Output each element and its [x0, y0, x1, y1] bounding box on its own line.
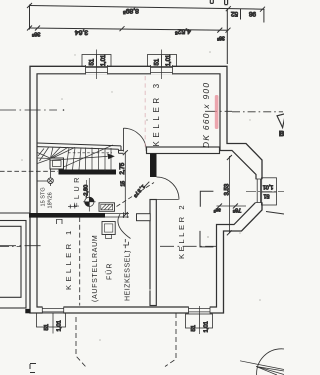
svg-text:98: 98 — [249, 10, 257, 17]
stair under-stair wall with newel — [59, 170, 117, 175]
door FLUR to KELLER 2 — [143, 182, 149, 189]
FLUR bottom wall thick — [29, 213, 105, 218]
door FLUR to KELLER 3 — [123, 128, 125, 152]
stair top wall — [37, 143, 121, 146]
dimension 3,53 vertical KELLER2 — [228, 156, 230, 233]
section marker triangle right edge — [277, 114, 286, 128]
KELLER2 left wall upper solid — [150, 154, 157, 178]
svg-text:188/26: 188/26 — [46, 192, 54, 208]
terrain line right of bay — [266, 212, 284, 215]
boiler in AUFSTELLRAUM — [102, 222, 115, 235]
svg-text:1,01: 1,01 — [166, 54, 172, 66]
svg-text:51: 51 — [154, 58, 160, 65]
svg-text:1,01: 1,01 — [203, 321, 209, 332]
exterior wall inner outline — [37, 74, 256, 307]
stairwell eye rectangle — [50, 158, 64, 169]
window W2 dimension box 51/1,01 — [148, 55, 177, 67]
window W1 dimension box 51/1,01 — [82, 55, 111, 67]
exterior wall outer outline — [30, 66, 262, 313]
window W3 bottom-left opening — [42, 306, 63, 314]
window W2 top wall opening — [151, 65, 173, 75]
diagonal dashed 1,37 — [117, 183, 155, 207]
extension line right to building corner — [226, 9, 228, 64]
window W3 dimension box — [37, 313, 66, 327]
KELLER2 left wall lower — [150, 200, 156, 306]
stair winders fan — [37, 147, 75, 164]
svg-text:2,75: 2,75 — [120, 162, 126, 174]
svg-text:FÜR: FÜR — [106, 263, 114, 280]
svg-text:15 STG: 15 STG — [41, 187, 47, 206]
svg-text:B: B — [279, 129, 284, 138]
bracket marks in KELLER 2 — [200, 191, 213, 207]
svg-text:FLUR: FLUR — [72, 174, 81, 207]
tree circle bottom right — [257, 349, 307, 375]
dimension 76(5) bay bottom — [217, 205, 247, 207]
door FLUR to AUFSTELLRAUM — [105, 213, 129, 215]
svg-text:KELLER 1: KELLER 1 — [64, 227, 73, 290]
svg-text:(AUFSTELLRAUM: (AUFSTELLRAUM — [92, 235, 99, 302]
svg-text:51: 51 — [44, 324, 50, 330]
stair walking line with arrow — [50, 156, 108, 160]
chimney hatched box — [99, 203, 115, 212]
dashed flue stub below door — [124, 239, 126, 252]
dimension 2,75 FLUR vertical — [124, 152, 126, 216]
stair mid dashed line — [68, 152, 112, 154]
drainage dashed below building left — [76, 317, 86, 367]
section line B-B horizontal dash-dot — [0, 109, 283, 112]
cut-off label stubs at top edge — [210, 0, 227, 5]
svg-text:HEIZKESSEL): HEIZKESSEL) — [125, 250, 132, 301]
column line and circle — [50, 169, 52, 186]
level mark -2,80 with symbol — [88, 178, 90, 212]
dimension line top overall 8,89/52/98 — [27, 3, 265, 23]
dashed partition KELLER1 / AUFSTELLRAUM — [79, 217, 81, 306]
dashed stair line left — [0, 170, 58, 172]
drainage dashed below building right — [165, 313, 176, 367]
bay window dimension box — [262, 178, 277, 205]
window W4 bottom-right opening — [189, 306, 211, 314]
svg-text:1,01: 1,01 — [263, 183, 274, 189]
bottom-left corner marks — [30, 364, 36, 373]
red dashed revision line along KELLER 3 — [144, 76, 146, 148]
svg-text:1,01: 1,01 — [101, 54, 107, 66]
bay window W5 opening — [255, 179, 263, 203]
svg-text:KELLER 2: KELLER 2 — [177, 203, 186, 259]
door marks below wall KELLER1 — [56, 219, 58, 224]
svg-text:51: 51 — [191, 325, 197, 331]
dimension line second row 36/3,64/4,52/36 — [27, 26, 231, 33]
svg-text:51: 51 — [89, 58, 95, 65]
svg-text:3,53: 3,53 — [224, 183, 230, 195]
stair up diagonal — [64, 145, 113, 167]
svg-text:3,64: 3,64 — [75, 29, 88, 36]
svg-text:52: 52 — [231, 10, 239, 17]
svg-text:1,01: 1,01 — [56, 320, 62, 331]
wall segment left of door to KELLER 3 — [119, 149, 124, 151]
stair treads — [66, 148, 111, 171]
section line A-A dash-dot lower — [0, 245, 44, 247]
red marker bar — [215, 95, 219, 129]
window W4 dimension box — [186, 314, 213, 328]
svg-text:15: 15 — [121, 181, 127, 187]
FLUR bottom wall right stub — [137, 214, 151, 221]
wall KELLER3/KELLER2 (top wall of KELLER 2) — [147, 147, 220, 154]
left lightwell structure — [0, 213, 30, 313]
svg-text:KELLER 3: KELLER 3 — [152, 80, 161, 146]
window W1 top wall opening — [86, 65, 108, 75]
extension line left — [29, 5, 31, 30]
door jamb marks above wall — [69, 205, 71, 209]
svg-text:DK 660 x 900: DK 660 x 900 — [201, 82, 211, 148]
svg-text:51: 51 — [264, 192, 270, 198]
